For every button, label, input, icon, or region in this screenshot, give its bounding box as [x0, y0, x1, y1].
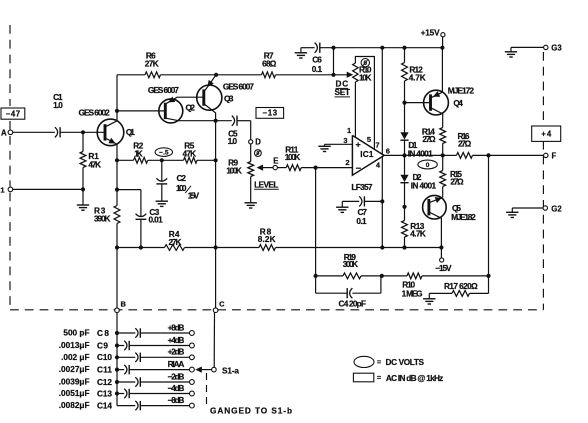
svg-text:DC VOLTS: DC VOLTS [386, 358, 425, 367]
label LEVEL [254, 180, 279, 189]
wire R4 to node C column [185, 245, 260, 249]
resistor R11 100K [285, 146, 302, 171]
label DC SET [335, 80, 351, 98]
svg-text:100K: 100K [285, 153, 301, 162]
svg-text:−2dB: −2dB [168, 372, 185, 381]
capacitor C5 1.0 [228, 116, 238, 146]
diode D1 IN4001 [400, 132, 433, 158]
svg-text:100: 100 [176, 184, 187, 193]
svg-text:−8dB: −8dB [168, 396, 185, 405]
svg-text:C9: C9 [97, 341, 108, 350]
DC volts oval -.5 [155, 148, 172, 157]
op-amp pin 4 wire to C7 [380, 157, 384, 248]
svg-text:3: 3 [343, 136, 347, 145]
resistor R8 8.2K [258, 227, 276, 250]
resistor R15 27ohm [440, 155, 464, 197]
resistor R4 27K [165, 230, 185, 251]
Q4 emitter lead from +15V [432, 48, 443, 98]
wire emitter rail down to C3 junction [115, 160, 119, 205]
svg-text:0.1: 0.1 [356, 217, 367, 226]
svg-text:1: 1 [347, 126, 351, 135]
node 1 terminal [0, 186, 12, 195]
terminal G3 with ground [505, 43, 563, 57]
capacitor C14 .0082&#956;F selector row [59, 396, 195, 410]
svg-text:8.2K: 8.2K [258, 235, 276, 244]
svg-text:47K: 47K [88, 160, 101, 169]
DC volts circle 0 at node D [255, 150, 262, 157]
wire junction to R7 [216, 74, 261, 76]
svg-text:.002 μF: .002 μF [61, 353, 89, 362]
svg-text:C6: C6 [312, 56, 322, 65]
resistor R19 300K [316, 253, 382, 279]
svg-text:−47: −47 [6, 109, 21, 118]
wire R7 to DC-set junction [276, 73, 336, 77]
wire C3 branch [117, 190, 141, 217]
Q3 emitter lead to top rail [205, 75, 216, 91]
svg-text:LF357: LF357 [351, 183, 373, 192]
capacitor C8 500 pF selector row [63, 323, 194, 337]
wire R2 to C2 junction [148, 158, 184, 162]
svg-text:−13: −13 [263, 109, 278, 118]
svg-text:R17 620Ω: R17 620Ω [444, 282, 478, 291]
ground left of C6 [295, 48, 307, 58]
svg-text:1K: 1K [134, 149, 143, 158]
svg-text:IC1: IC1 [360, 150, 374, 159]
svg-text:.0039μF: .0039μF [59, 378, 90, 387]
op-amp plus minus marks [356, 142, 361, 168]
node D [249, 138, 262, 147]
svg-text:500 pF: 500 pF [63, 329, 89, 338]
AC level box +4 [532, 126, 561, 141]
resistor R17 620ohm branch [429, 276, 488, 296]
ground left of C7 [336, 201, 359, 212]
transistor Q3 GES 6007 [197, 81, 255, 110]
svg-text:GES 6002: GES 6002 [79, 108, 111, 118]
wire R8 to negative rail [276, 245, 442, 249]
svg-text:S1-a: S1-a [222, 366, 239, 375]
wire DC-set junction to R10 wiper arrow [334, 72, 354, 78]
DC volts oval 0 [418, 160, 437, 169]
svg-text:−4dB: −4dB [168, 384, 185, 393]
svg-text:15V: 15V [188, 192, 200, 201]
Q5 collector lead [430, 213, 444, 250]
wire ground to C6 [301, 47, 315, 49]
svg-text:C11: C11 [97, 365, 112, 374]
-15V supply terminal [435, 248, 452, 273]
capacitor C4 20pF branch [316, 276, 381, 309]
svg-text:G3: G3 [551, 43, 562, 52]
wire R16 to node F [473, 153, 544, 157]
dashed enclosure border right side [542, 52, 544, 310]
wire node C column [215, 121, 217, 308]
svg-text:GANGED TO S1-b: GANGED TO S1-b [210, 407, 292, 416]
offset pot frame pins 1 and 5 [355, 57, 374, 150]
legend oval DC volts [354, 356, 424, 367]
resistor R2 1K [117, 157, 148, 163]
svg-text:−.5: −.5 [159, 149, 169, 156]
node F [544, 151, 557, 160]
resistor R1 47K [80, 132, 101, 189]
wire node 1 to R1 bottom [13, 187, 85, 191]
junction output column bottom [486, 274, 490, 278]
dashed enclosure border left side [9, 25, 11, 310]
potentiometer R9 100K [226, 144, 253, 177]
svg-text:0.01: 0.01 [149, 215, 164, 224]
svg-text:6: 6 [386, 147, 390, 156]
Q2 emitter lead to Q3 base [167, 97, 203, 104]
resistor R6 27K [145, 51, 161, 77]
svg-text:47K: 47K [183, 150, 197, 159]
potentiometer R10 10K [353, 63, 372, 83]
svg-text:=: = [377, 373, 382, 382]
Q1 emitter lead with arrow [106, 138, 117, 161]
svg-text:C10: C10 [97, 353, 112, 362]
capacitor C9 .0013&#956;F selector row [59, 336, 195, 350]
svg-text:7: 7 [375, 141, 379, 150]
svg-text:4.7K: 4.7K [409, 73, 426, 82]
svg-text:C8: C8 [97, 329, 109, 338]
transistor Q5 MJE182 [423, 195, 477, 222]
svg-text:C: C [219, 299, 225, 308]
svg-text:2: 2 [345, 158, 349, 167]
svg-text:C14: C14 [97, 401, 112, 410]
ground below R9 [245, 177, 257, 209]
svg-text:1.0: 1.0 [228, 137, 238, 146]
capacitor C7 0.1 [356, 196, 382, 226]
svg-text:C12: C12 [97, 378, 112, 387]
svg-text:MJE172: MJE172 [448, 85, 475, 95]
svg-text:300K: 300K [343, 260, 358, 269]
svg-text:390K: 390K [94, 214, 111, 223]
wire C1 to Q1 base [60, 130, 106, 134]
wire top rail left segment [117, 74, 145, 76]
resistor R13 4.7K [402, 207, 426, 248]
ground below R17 [423, 293, 435, 304]
resistor R12 4.7K [402, 48, 426, 103]
svg-text:0: 0 [426, 162, 430, 169]
svg-text:4.7K: 4.7K [410, 230, 426, 239]
svg-text:AC IN dB @ 1kHz: AC IN dB @ 1kHz [386, 374, 443, 383]
ground below C2 [156, 184, 168, 207]
R9 wiper arrow from node E [257, 164, 273, 170]
wire output column [488, 155, 490, 276]
svg-text:27Ω: 27Ω [422, 135, 436, 144]
svg-text:Q3: Q3 [224, 95, 234, 104]
svg-text:+8dB: +8dB [168, 323, 185, 332]
svg-text:=: = [377, 357, 382, 366]
svg-text:IN 4001: IN 4001 [411, 182, 437, 191]
op-amp pin 3 ground wire [318, 144, 352, 151]
dashed gang linkage [207, 373, 293, 416]
resistor R14 27ohm [422, 128, 446, 156]
capacitor C6 0.1 [312, 43, 323, 75]
svg-text:SET: SET [335, 88, 351, 97]
svg-text:1 MEG: 1 MEG [402, 290, 423, 299]
svg-text:.0051μF: .0051μF [59, 389, 90, 398]
wire R11 to op-amp inverting input [301, 166, 352, 170]
svg-text:+4dB: +4dB [168, 336, 185, 345]
junction Q5 base [402, 205, 406, 209]
resistor R16 27ohm [443, 132, 473, 158]
svg-text:A: A [1, 129, 7, 138]
svg-text:1.0: 1.0 [53, 101, 63, 110]
riser wire to +15V rail [331, 46, 335, 75]
capacitor C13 .0051&#956;F selector row [59, 384, 195, 398]
wire Q3 collector to C5 [216, 120, 232, 122]
svg-text:E: E [273, 156, 278, 165]
svg-text:G2: G2 [551, 205, 562, 214]
svg-text:1: 1 [0, 186, 4, 195]
Q3 collector lead [205, 105, 218, 123]
svg-text:RIAA: RIAA [168, 360, 185, 369]
wire rail R3 to R4 [117, 247, 165, 249]
AC level box -13 [256, 108, 284, 119]
wire op-amp output rail [384, 153, 445, 157]
svg-text:−15V: −15V [435, 264, 452, 273]
capacitor bank bus from node B [115, 312, 119, 405]
svg-text:Q4: Q4 [453, 99, 463, 108]
capacitor C12 .0039&#956;F selector row [59, 372, 195, 386]
transistor Q1 GES 6002 [79, 108, 136, 146]
Q1 collector lead [106, 75, 117, 127]
svg-text:.0027μF: .0027μF [59, 365, 90, 374]
svg-text:LEVEL: LEVEL [254, 180, 278, 189]
svg-text:100K: 100K [226, 166, 242, 175]
svg-text:.0013μF: .0013μF [59, 341, 90, 350]
op-amp IC1 triangle [351, 135, 384, 192]
Q5 emitter lead with arrow [430, 197, 443, 203]
wire Q2 base from Q1 collector column [115, 109, 165, 113]
wire C5 to node D [237, 121, 251, 140]
svg-text:Q2: Q2 [186, 103, 196, 112]
wire inverting node down to R19 [314, 168, 318, 278]
DC volts circle 0 above R10 [361, 59, 369, 68]
svg-text:+4: +4 [541, 130, 552, 139]
svg-text:IN 4001: IN 4001 [408, 149, 433, 158]
resistor R2 labels [133, 141, 143, 158]
svg-text:.0082μF: .0082μF [59, 401, 90, 410]
transistor Q4 MJE172 [424, 85, 475, 115]
wire R12 to D1 [404, 103, 406, 133]
svg-text:C2: C2 [177, 174, 187, 183]
capacitor C2 100uF [156, 160, 199, 200]
svg-text:27Ω: 27Ω [450, 177, 464, 186]
wire node C to S1-a [213, 312, 215, 367]
svg-text:Q1: Q1 [126, 128, 135, 137]
svg-text:D2: D2 [413, 173, 422, 182]
legend rectangle AC dB [353, 373, 443, 383]
dashed enclosure border bottom [10, 309, 543, 311]
wire R5 to Q3 collector column [197, 158, 218, 162]
junction R3 bottom [115, 245, 119, 249]
svg-text:C7: C7 [358, 208, 368, 217]
Q4 collector lead [432, 108, 443, 127]
diode D2 IN4001 [400, 155, 436, 206]
ground below R1 [77, 189, 89, 210]
svg-text:27K: 27K [169, 238, 182, 247]
resistor R5 47K [183, 141, 198, 163]
wire +15V rail [320, 46, 445, 50]
capacitor C10 .002 &#956;F selector row [61, 348, 194, 362]
AC level box -47 [1, 108, 25, 119]
node B [115, 299, 127, 312]
svg-text:C13: C13 [97, 389, 112, 398]
svg-text:27K: 27K [145, 59, 159, 68]
svg-text:+15V: +15V [421, 28, 440, 37]
svg-text:D: D [255, 138, 261, 147]
resistor R10 1MEG [382, 273, 489, 299]
junction Q4 base [402, 101, 406, 105]
Q2 collector lead [167, 118, 216, 120]
capacitor C11 .0027&#956;F selector row [59, 360, 195, 374]
capacitor C3 0.01 [136, 208, 164, 224]
wire Q4 base [405, 102, 430, 104]
resistor R7 68ohm [262, 51, 277, 77]
wire C3 to bottom rail [139, 219, 143, 249]
svg-text:MJE182: MJE182 [451, 212, 476, 222]
svg-text:GES 6007: GES 6007 [223, 81, 254, 91]
svg-text:68Ω: 68Ω [262, 59, 277, 68]
resistor R3 390K [94, 206, 120, 248]
capacitor C1 [53, 93, 63, 137]
svg-text:GES 6007: GES 6007 [148, 85, 179, 95]
wire node A to C1 [13, 131, 55, 133]
svg-text:F: F [552, 151, 557, 160]
op-amp pin numbers [343, 126, 390, 169]
svg-text:B: B [121, 299, 127, 308]
node A [1, 129, 13, 138]
svg-text:5: 5 [367, 135, 371, 144]
svg-text:4: 4 [376, 160, 381, 169]
node E [273, 156, 278, 170]
op-amp pin 7 supply wire [381, 48, 383, 155]
wire R6 to Q3 emitter junction [161, 73, 219, 77]
svg-text:10K: 10K [359, 74, 372, 83]
svg-text:+2dB: +2dB [168, 348, 185, 357]
selector switch S1-a [195, 366, 239, 375]
terminal G2 with ground [506, 205, 562, 218]
svg-text:27Ω: 27Ω [458, 139, 472, 148]
svg-text:0.1: 0.1 [312, 65, 323, 74]
wire node E to R11 [277, 167, 286, 169]
node C [213, 299, 225, 312]
wire node B column [116, 248, 118, 309]
+15V supply terminal [421, 28, 445, 47]
svg-text:C4 20pF: C4 20pF [339, 300, 367, 309]
wire Q1 emitter junction [115, 158, 119, 162]
junction R19 right [380, 274, 384, 278]
svg-text:R10: R10 [402, 280, 415, 289]
transistor Q2 GES 6007 [148, 85, 196, 123]
